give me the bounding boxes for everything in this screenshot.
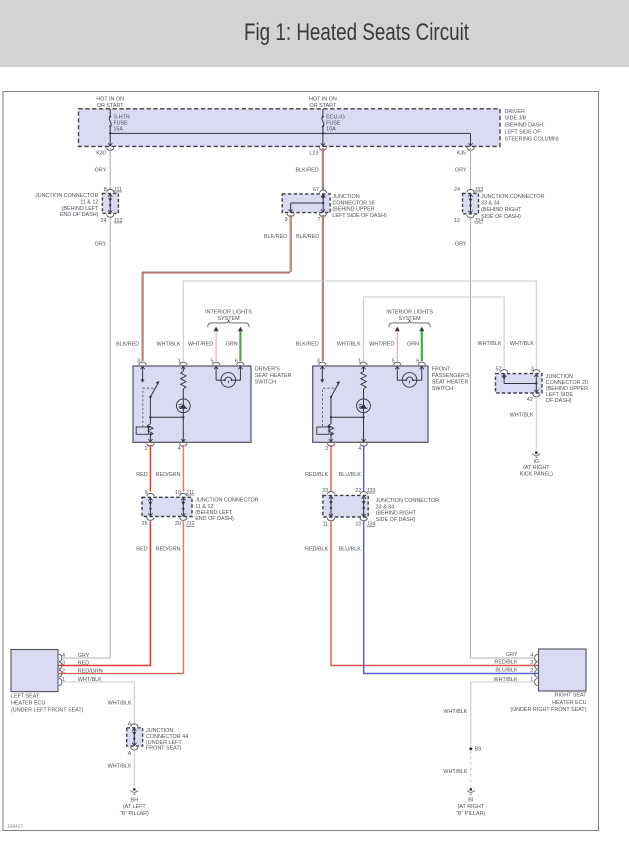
wire WHT/RED to interior lights (driver): [214, 327, 219, 332]
svg-text:K30: K30: [96, 151, 106, 157]
svg-text:5: 5: [211, 359, 214, 365]
svg-text:WHT/BLK: WHT/BLK: [108, 700, 132, 706]
svg-text:GRN: GRN: [407, 342, 419, 348]
svg-text:SWITCH: SWITCH: [432, 386, 453, 392]
LED indicator: [357, 399, 371, 413]
wire GRN to interior lights (passenger): [419, 327, 424, 332]
svg-text:HEATER ECU: HEATER ECU: [552, 700, 586, 706]
svg-text:WHT/RED: WHT/RED: [188, 342, 213, 348]
wire GRY into right ECU pin 4: [471, 657, 535, 659]
wire RED: J12 to left seat heater ECU pin 3: [58, 521, 150, 665]
wire GRN to interior lights (driver): [238, 327, 243, 332]
svg-text:B9: B9: [475, 747, 482, 753]
svg-text:HEATER ECU: HEATER ECU: [11, 701, 45, 707]
svg-text:BLK/RED: BLK/RED: [264, 234, 287, 240]
wire WHT/BLK: JC44 to BH ground: [133, 748, 135, 787]
switch: pin 3 contact stub: [321, 366, 323, 380]
rheostat element: [148, 424, 153, 436]
fuse box: driver side J/B: [79, 109, 501, 147]
svg-text:6: 6: [235, 359, 238, 365]
svg-text:SEAT HEATER: SEAT HEATER: [432, 380, 469, 386]
wire WHT/BLK: right ECU pin 1 to node B9: [471, 682, 535, 748]
svg-text:1: 1: [358, 359, 361, 365]
svg-text:52: 52: [496, 367, 502, 373]
switch: pin 3 contact stub: [142, 366, 144, 380]
LED indicator: [176, 399, 190, 413]
svg-text:12: 12: [454, 218, 460, 224]
wire RED/BLK: passenger switch pin 2 to J33 (lower): [330, 445, 332, 491]
svg-text:(UNDER LEFT FRONT SEAT): (UNDER LEFT FRONT SEAT): [11, 708, 84, 714]
svg-text:SIDE OF DASH): SIDE OF DASH): [376, 517, 416, 523]
wire: J/B bus drop to K35: [470, 133, 472, 146]
svg-text:K35: K35: [457, 151, 467, 157]
ground BI (at right B pillar): [470, 788, 473, 791]
rheostat wiper: [136, 427, 148, 434]
svg-text:BLU/BLK: BLU/BLK: [339, 472, 362, 478]
svg-text:33 & 34: 33 & 34: [376, 504, 395, 510]
svg-text:67: 67: [313, 187, 319, 193]
wire GRY: K35 to junction connector 33&34: [470, 148, 472, 189]
ground IG (at right kick panel): [535, 451, 538, 454]
svg-text:(BEHIND RIGHT: (BEHIND RIGHT: [376, 511, 417, 517]
svg-text:11: 11: [323, 522, 329, 528]
switch: blade: [331, 384, 338, 397]
svg-text:3: 3: [531, 367, 534, 373]
svg-text:RED: RED: [136, 472, 147, 478]
switch: wiper branch wire: [149, 397, 151, 424]
wire RED: driver switch pin 2 to J11 (lower): [149, 445, 151, 491]
svg-text:7: 7: [317, 217, 320, 223]
svg-text:(BEHIND DASH,: (BEHIND DASH,: [505, 123, 546, 129]
svg-text:2: 2: [62, 669, 65, 675]
svg-text:9: 9: [285, 217, 288, 223]
svg-text:FRONT SEAT): FRONT SEAT): [146, 746, 182, 752]
fuse ECU-IG FUSE 10A: [322, 109, 324, 117]
svg-text:RED/GRN: RED/GRN: [156, 547, 181, 553]
svg-text:(AT RIGHT: (AT RIGHT: [523, 465, 550, 471]
ground BH (at left B pillar): [133, 788, 136, 791]
svg-text:“B” PILLAR): “B” PILLAR): [120, 811, 149, 817]
wire RED/GRN: driver switch pin 4 to J11 (lower): [182, 445, 184, 491]
connector exit K35: [468, 143, 470, 146]
svg-text:3: 3: [62, 661, 65, 667]
wire WHT/BLK (dashed): node B9 to BI ground: [470, 750, 472, 787]
switch: blade: [150, 384, 157, 397]
wire GRY: J12 down to left seat heater ECU: [109, 216, 111, 658]
svg-text:8: 8: [104, 187, 107, 193]
wire BLU/BLK: J34 to right seat heater ECU pin 2: [364, 522, 539, 674]
svg-text:2: 2: [325, 446, 328, 452]
svg-text:FRONT: FRONT: [432, 367, 451, 373]
svg-text:GRY: GRY: [506, 652, 518, 658]
svg-text:42: 42: [527, 397, 533, 403]
resistor (indicator dropping): [182, 366, 184, 372]
svg-text:PASSENGER'S: PASSENGER'S: [432, 373, 470, 379]
svg-text:SIDE J/B: SIDE J/B: [505, 116, 527, 122]
svg-text:WHT/BLK: WHT/BLK: [443, 709, 467, 715]
svg-text:END OF DASH): END OF DASH): [60, 212, 99, 218]
wire WHT/BLK: driver switch pin 1 to JC20 pin 3: [183, 281, 536, 370]
wire BLK/RED: L23 to junction connector 18: [321, 148, 323, 190]
svg-text:INTERIOR LIGHTS: INTERIOR LIGHTS: [205, 309, 252, 315]
svg-text:Fig 1: Heated Seats Circuit: Fig 1: Heated Seats Circuit: [244, 19, 469, 46]
svg-text:“B” PILLAR): “B” PILLAR): [456, 811, 485, 817]
svg-text:KICK PANEL): KICK PANEL): [520, 472, 553, 478]
switch: mechanical link (dashed): [323, 388, 335, 426]
wire RED/GRN: J12 to left seat heater ECU pin 2: [58, 521, 183, 673]
svg-text:A: A: [128, 751, 132, 757]
illumination lamp: [215, 366, 217, 380]
svg-text:DRIVER'S: DRIVER'S: [255, 367, 280, 373]
svg-text:INTERIOR LIGHTS: INTERIOR LIGHTS: [386, 309, 433, 315]
svg-text:JUNCTION CONNECTOR: JUNCTION CONNECTOR: [195, 498, 258, 504]
svg-text:GRY: GRY: [95, 242, 107, 248]
svg-text:WHT/BLK: WHT/BLK: [443, 769, 467, 775]
svg-text:BLK/RED: BLK/RED: [296, 167, 319, 173]
wire GRY into left ECU pin 4: [62, 657, 110, 659]
svg-text:RED/BLK: RED/BLK: [494, 660, 517, 666]
svg-text:RED: RED: [78, 661, 89, 667]
svg-text:11 & 12: 11 & 12: [80, 200, 98, 206]
junction connector 18: [282, 194, 330, 213]
svg-text:SWITCH: SWITCH: [255, 380, 276, 386]
svg-text:HOT IN ON: HOT IN ON: [96, 97, 124, 103]
svg-text:(BEHIND UPPER: (BEHIND UPPER: [332, 207, 374, 213]
svg-text:24: 24: [454, 187, 460, 193]
svg-text:JUNCTION CONNECTOR: JUNCTION CONNECTOR: [376, 498, 439, 504]
svg-text:11 & 12: 11 & 12: [195, 504, 213, 510]
svg-text:RED/BLK: RED/BLK: [305, 472, 328, 478]
svg-text:20: 20: [175, 521, 181, 527]
svg-text:GRY: GRY: [455, 167, 467, 173]
svg-text:3: 3: [137, 359, 140, 365]
right seat heater ECU: [539, 649, 587, 691]
svg-text:BLU/BLK: BLU/BLK: [339, 547, 362, 553]
junction connector 11 & 12 (lower): [142, 497, 192, 516]
driver's seat heater switch: [133, 366, 251, 442]
svg-text:L23: L23: [309, 151, 318, 157]
svg-text:RED/GRN: RED/GRN: [78, 669, 103, 675]
svg-text:(AT LEFT: (AT LEFT: [123, 804, 147, 810]
svg-text:WHT/BLK: WHT/BLK: [337, 342, 361, 348]
wire WHT/BLK: JC20 pin 42 to IG ground: [535, 395, 537, 449]
svg-text:WHT/RED: WHT/RED: [369, 342, 394, 348]
svg-text:SEAT HEATER: SEAT HEATER: [255, 373, 292, 379]
svg-text:GRY: GRY: [78, 653, 90, 659]
rheostat wiper: [317, 427, 329, 434]
svg-text:OF DASH): OF DASH): [546, 398, 572, 404]
svg-text:SIDE OF DASH): SIDE OF DASH): [481, 214, 521, 220]
svg-text:4: 4: [358, 446, 361, 452]
wire: J/B internal bus: [110, 132, 470, 134]
svg-text:RED: RED: [136, 547, 147, 553]
svg-text:RIGHT SEAT: RIGHT SEAT: [555, 693, 588, 699]
svg-text:WHT/BLK: WHT/BLK: [510, 341, 534, 347]
switch: wiper branch wire: [330, 397, 332, 424]
wire WHT/BLK: passenger switch pin 1 to JC20 pin 52: [364, 297, 505, 370]
svg-text:LEFT SIDE OF: LEFT SIDE OF: [505, 130, 542, 136]
svg-text:(BEHIND LEFT: (BEHIND LEFT: [62, 206, 100, 212]
svg-text:BLK/RED: BLK/RED: [116, 342, 139, 348]
junction connector 11 & 12 (upper): [102, 193, 118, 213]
svg-text:END OF DASH): END OF DASH): [195, 516, 234, 522]
svg-text:WHT/BLK: WHT/BLK: [108, 763, 132, 769]
rheostat element: [328, 424, 333, 436]
junction connector 33 & 34 (upper): [463, 193, 479, 214]
resistor (indicator dropping): [363, 366, 365, 372]
svg-text:WHT/BLK: WHT/BLK: [510, 412, 534, 418]
svg-text:24: 24: [101, 218, 107, 224]
svg-text:OR START: OR START: [310, 103, 337, 109]
wire WHT/BLK: left ECU pin 1 to junction connector 44: [62, 682, 135, 725]
svg-text:STEERING COLUMN): STEERING COLUMN): [505, 136, 559, 142]
svg-text:1: 1: [178, 359, 181, 365]
svg-text:BI: BI: [468, 797, 473, 803]
svg-text:(UNDER RIGHT FRONT SEAT): (UNDER RIGHT FRONT SEAT): [510, 707, 586, 713]
svg-text:5: 5: [392, 359, 395, 365]
svg-text:GRN: GRN: [226, 342, 238, 348]
wire BLK/RED: JC18 pin 7 to passenger switch pin 3: [321, 215, 323, 361]
node B9: [469, 747, 472, 750]
svg-text:IG: IG: [533, 459, 539, 465]
svg-text:23: 23: [322, 488, 328, 494]
svg-text:JUNCTION: JUNCTION: [332, 194, 359, 200]
svg-text:4: 4: [178, 446, 181, 452]
svg-text:HOT IN ON: HOT IN ON: [309, 97, 337, 103]
wire WHT/RED to interior lights (passenger): [395, 327, 400, 332]
svg-text:DRIVER: DRIVER: [505, 109, 525, 115]
svg-text:33 & 34: 33 & 34: [481, 201, 500, 207]
svg-text:15A: 15A: [113, 127, 123, 133]
svg-text:192417: 192417: [8, 824, 24, 829]
svg-text:RED/GRN: RED/GRN: [156, 472, 181, 478]
left seat heater ECU: [11, 650, 58, 692]
wire BLK/RED: JC18 pin 9 to driver switch pin 3: [289, 215, 291, 272]
wire GRY: J34 down to right seat heater ECU: [470, 216, 472, 658]
svg-text:JUNCTION CONNECTOR: JUNCTION CONNECTOR: [35, 193, 98, 199]
svg-text:CONNECTOR 18: CONNECTOR 18: [332, 200, 374, 206]
svg-text:25: 25: [142, 521, 148, 527]
svg-text:6: 6: [416, 359, 419, 365]
wire GRY: K30 to junction connector 11&12: [109, 148, 111, 189]
svg-text:10: 10: [355, 522, 361, 528]
svg-text:2: 2: [530, 668, 533, 674]
svg-text:3: 3: [530, 660, 533, 666]
svg-text:9: 9: [145, 490, 148, 496]
illumination lamp: [396, 366, 398, 380]
fuse S-HTR FUSE 15A: [109, 109, 111, 117]
wire BLU/BLK: passenger switch pin 4 to J33 (lower): [363, 445, 365, 491]
wire RED/BLK: J34 to right seat heater ECU pin 3: [331, 522, 539, 666]
svg-text:OR START: OR START: [97, 103, 124, 109]
title header: [0, 0, 629, 67]
svg-text:BLK/RED: BLK/RED: [296, 342, 319, 348]
svg-text:LEFT SIDE OF DASH): LEFT SIDE OF DASH): [332, 213, 387, 219]
svg-text:WHT/BLK: WHT/BLK: [157, 342, 181, 348]
svg-text:BLU/BLK: BLU/BLK: [495, 668, 518, 674]
svg-text:JUNCTION CONNECTOR: JUNCTION CONNECTOR: [481, 194, 544, 200]
svg-text:WHT/BLK: WHT/BLK: [478, 341, 502, 347]
front passenger's seat heater switch: [313, 366, 428, 442]
switch: internal tie wire: [150, 416, 183, 418]
switch: mechanical link (dashed): [143, 388, 154, 426]
svg-text:BH: BH: [131, 797, 139, 803]
svg-text:(BEHIND LEFT: (BEHIND LEFT: [195, 510, 233, 516]
svg-text:22: 22: [355, 488, 361, 494]
junction connector 44: [127, 728, 143, 746]
svg-text:LEFT SEAT: LEFT SEAT: [11, 694, 40, 700]
svg-text:3: 3: [317, 359, 320, 365]
junction connector 33 & 34 (lower): [323, 495, 368, 517]
switch: internal tie wire: [331, 416, 364, 418]
svg-text:BLK/RED: BLK/RED: [296, 234, 319, 240]
svg-text:10A: 10A: [326, 127, 336, 133]
svg-text:RED/BLK: RED/BLK: [305, 547, 328, 553]
svg-text:(BEHIND RIGHT: (BEHIND RIGHT: [481, 207, 522, 213]
svg-text:10: 10: [175, 490, 181, 496]
svg-text:A: A: [128, 721, 132, 727]
svg-text:GRY: GRY: [95, 167, 107, 173]
svg-text:2: 2: [145, 446, 148, 452]
svg-text:(AT RIGHT: (AT RIGHT: [458, 804, 485, 810]
svg-text:GRY: GRY: [455, 242, 467, 248]
junction connector 20: [496, 374, 543, 393]
